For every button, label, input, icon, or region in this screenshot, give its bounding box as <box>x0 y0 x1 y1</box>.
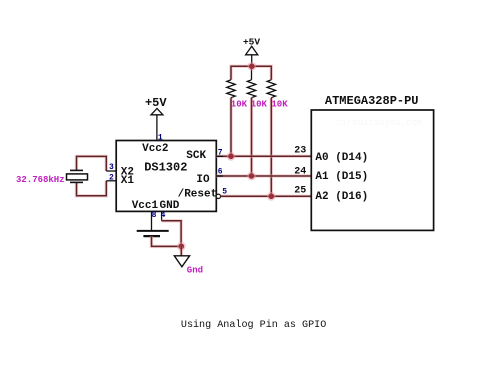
svg-text:3: 3 <box>109 163 114 172</box>
svg-text:10K: 10K <box>231 99 248 109</box>
svg-text:IO: IO <box>196 174 210 186</box>
wire pull-up bus <box>231 66 271 80</box>
svg-text:Vcc1: Vcc1 <box>132 200 159 212</box>
power +5V DS1302 arrow symbol <box>151 108 163 114</box>
crystal Y1 bottom plate <box>70 181 83 183</box>
pin stub X2 pin 3 <box>106 170 116 172</box>
svg-text:Gnd: Gnd <box>187 266 203 276</box>
svg-text:circuits4you.com: circuits4you.com <box>336 118 422 128</box>
svg-text:23: 23 <box>294 146 306 157</box>
op IC U1 DS1302 body <box>116 141 216 212</box>
junction ground node <box>177 242 186 251</box>
ground symbol <box>174 256 189 267</box>
power +5V pull-up arrow symbol <box>246 46 258 55</box>
svg-text:A2 (D16): A2 (D16) <box>315 191 368 203</box>
wire battery to ground junction <box>152 236 182 246</box>
svg-text:X1: X1 <box>121 175 135 187</box>
junction bus/+5V <box>247 62 256 71</box>
svg-text:DS1302: DS1302 <box>144 160 187 174</box>
svg-text:8: 8 <box>152 211 157 220</box>
wire R2 to IO line <box>250 98 253 176</box>
pin 5 inverted bubble <box>216 194 220 198</box>
svg-text:2: 2 <box>109 173 114 182</box>
battery BT1 negative plate <box>143 235 160 237</box>
resistor R2 10K (IO pull-up) <box>247 80 255 98</box>
pin stub Vcc1 pin 8 <box>151 211 153 231</box>
svg-text:GND: GND <box>160 200 180 212</box>
wire R3 to Reset line <box>270 98 273 197</box>
wire +5V lead to bus <box>251 55 253 67</box>
pin stub IO pin 6 <box>216 175 223 177</box>
svg-text:Vcc2: Vcc2 <box>142 143 168 155</box>
svg-text:4: 4 <box>161 211 166 220</box>
wire GND pin4 to junction <box>162 221 182 247</box>
svg-text:6: 6 <box>218 168 223 177</box>
svg-text:A1 (D15): A1 (D15) <box>315 171 368 183</box>
pin stub X1 pin 2 <box>106 180 116 182</box>
svg-text:5: 5 <box>222 188 227 197</box>
crystal Y1 top plate <box>70 169 83 171</box>
resistor R3 10K (Reset pull-up) <box>267 80 275 98</box>
svg-text:7: 7 <box>218 149 223 158</box>
junction R1/SCK <box>227 152 236 161</box>
pin stub SCK pin 7 <box>216 155 223 157</box>
svg-text:+5V: +5V <box>145 96 167 110</box>
wire crystal top loop <box>77 156 107 171</box>
svg-text:24: 24 <box>294 167 306 178</box>
svg-text:25: 25 <box>294 186 306 197</box>
svg-text:/Reset: /Reset <box>178 189 218 201</box>
svg-text:A0 (D14): A0 (D14) <box>315 152 368 164</box>
wire /Reset to ATMEGA pin 25 <box>221 195 312 198</box>
wire R2 drop from bus <box>251 66 253 80</box>
resistor R1 10K (SCK pull-up) <box>227 80 235 98</box>
wire junction to ground symbol <box>180 246 183 255</box>
svg-text:10K: 10K <box>251 99 268 109</box>
wire R1 to SCK line <box>229 98 232 157</box>
junction R3/Reset <box>267 192 276 201</box>
wire crystal bottom loop <box>77 181 107 196</box>
wire +5V to DS1302 pin 1 <box>156 115 158 141</box>
IC U2 ATMEGA328P-PU body <box>311 110 433 230</box>
crystal Y1 body <box>67 174 88 180</box>
battery BT1 positive plate <box>137 230 169 232</box>
svg-text:32.768kHz: 32.768kHz <box>16 175 65 185</box>
svg-text:Using Analog Pin as GPIO: Using Analog Pin as GPIO <box>181 319 326 331</box>
svg-text:SCK: SCK <box>186 150 206 162</box>
wire SCK to ATMEGA pin 23 <box>216 155 311 158</box>
pin stub GND pin 4 <box>161 211 163 220</box>
svg-text:ATMEGA328P-PU: ATMEGA328P-PU <box>325 94 419 108</box>
svg-text:10K: 10K <box>271 99 288 109</box>
wire IO to ATMEGA pin 24 <box>216 174 311 177</box>
junction R2/IO <box>247 172 256 181</box>
